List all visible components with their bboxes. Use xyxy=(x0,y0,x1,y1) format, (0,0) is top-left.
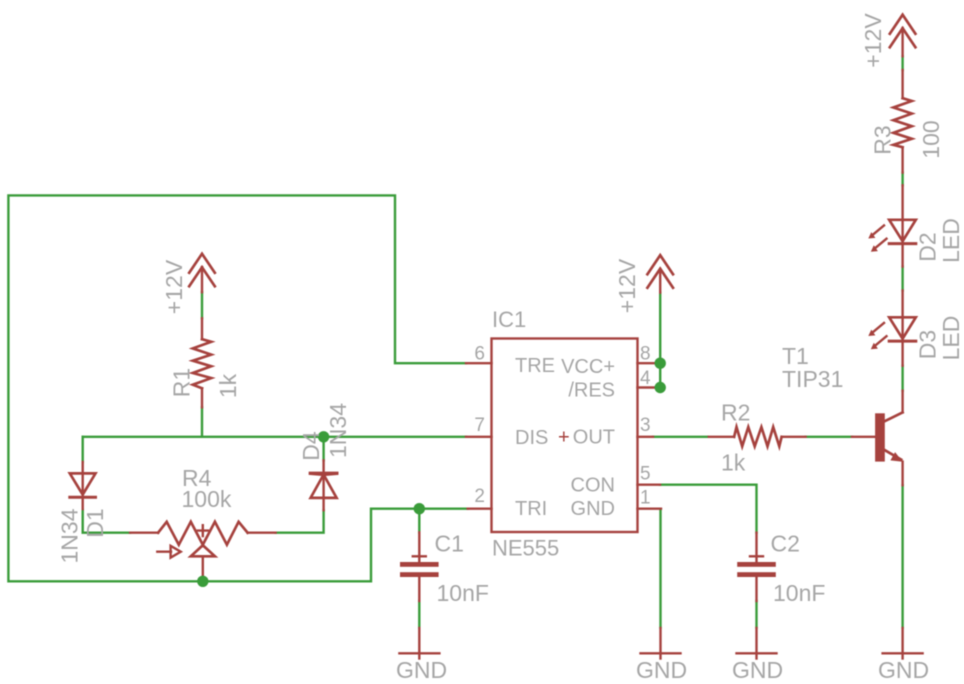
svg-text:GND: GND xyxy=(571,498,615,520)
svg-text:+12V: +12V xyxy=(161,259,187,314)
svg-text:1k: 1k xyxy=(721,450,746,476)
svg-text:100: 100 xyxy=(918,120,944,158)
svg-text:GND: GND xyxy=(878,657,929,683)
svg-text:TRE: TRE xyxy=(515,355,555,377)
svg-text:GND: GND xyxy=(396,657,447,683)
svg-text:GND: GND xyxy=(732,657,783,683)
svg-text:10nF: 10nF xyxy=(773,580,825,606)
svg-text:VCC+: VCC+ xyxy=(561,356,615,378)
svg-text:+12V: +12V xyxy=(614,258,640,313)
svg-text:1k: 1k xyxy=(215,373,241,398)
svg-text:R1: R1 xyxy=(169,368,195,397)
svg-text:5: 5 xyxy=(640,464,651,485)
svg-text:8: 8 xyxy=(640,344,651,365)
svg-text:10nF: 10nF xyxy=(437,580,489,606)
svg-text:D3: D3 xyxy=(915,330,941,359)
svg-text:DIS: DIS xyxy=(515,427,548,449)
svg-text:NE555: NE555 xyxy=(492,536,559,561)
svg-text:7: 7 xyxy=(474,415,485,436)
svg-text:D2: D2 xyxy=(915,232,941,261)
svg-text:1: 1 xyxy=(640,488,651,509)
svg-text:GND: GND xyxy=(636,657,687,683)
svg-text:1N34: 1N34 xyxy=(57,508,83,563)
svg-text:LED: LED xyxy=(938,218,964,263)
svg-text:+: + xyxy=(558,427,570,449)
svg-text:6: 6 xyxy=(474,344,485,365)
svg-text:D1: D1 xyxy=(82,508,108,537)
svg-text:TRI: TRI xyxy=(515,498,547,520)
svg-text:R2: R2 xyxy=(721,400,750,426)
svg-text:D4: D4 xyxy=(298,431,324,461)
svg-text:C2: C2 xyxy=(771,531,800,557)
svg-text:4: 4 xyxy=(640,368,651,389)
svg-text:100k: 100k xyxy=(182,486,232,512)
svg-text:C1: C1 xyxy=(435,531,464,557)
svg-text:/RES: /RES xyxy=(568,380,615,402)
svg-text:LED: LED xyxy=(938,316,964,361)
svg-text:3: 3 xyxy=(640,415,651,436)
svg-text:R3: R3 xyxy=(870,125,896,154)
svg-text:1N34: 1N34 xyxy=(325,403,351,458)
svg-text:+12V: +12V xyxy=(860,13,886,68)
svg-text:IC1: IC1 xyxy=(492,307,526,332)
svg-text:OUT: OUT xyxy=(573,427,615,449)
svg-text:CON: CON xyxy=(571,475,615,497)
svg-text:2: 2 xyxy=(474,486,485,507)
svg-text:TIP31: TIP31 xyxy=(782,366,843,392)
